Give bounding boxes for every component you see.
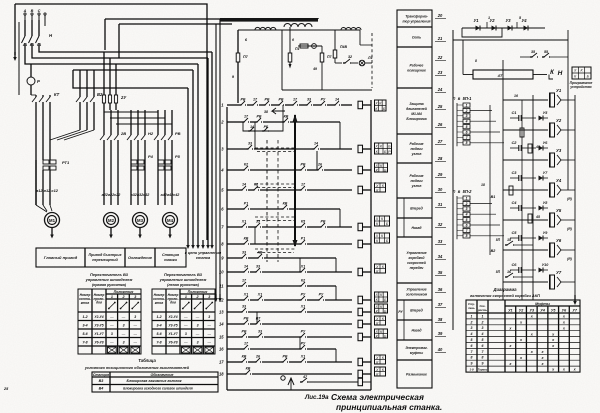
svg-text:Х: Х <box>375 368 379 372</box>
svg-text:управления шпинделем: управления шпинделем <box>159 277 207 282</box>
svg-text:—: — <box>109 324 114 328</box>
svg-text:16: 16 <box>514 94 518 98</box>
svg-text:К2: К2 <box>301 279 305 283</box>
svg-text:45: 45 <box>535 145 540 149</box>
svg-text:37: 37 <box>438 302 443 307</box>
svg-text:33: 33 <box>256 220 260 224</box>
svg-text:Х: Х <box>374 293 378 297</box>
svg-text:5: 5 <box>466 218 468 222</box>
svg-text:рость: рость <box>477 308 487 312</box>
svg-text:У7: У7 <box>556 270 562 275</box>
svg-text:М3: М3 <box>137 218 144 223</box>
svg-text:38: 38 <box>264 110 268 114</box>
svg-text:Х: Х <box>573 69 577 73</box>
svg-text:РУ: РУ <box>301 342 306 346</box>
svg-text:РВ: РВ <box>283 355 288 359</box>
svg-text:С1: С1 <box>37 43 42 47</box>
svg-text:РВ: РВ <box>175 131 181 136</box>
svg-text:В2: В2 <box>97 92 103 97</box>
svg-text:33: 33 <box>248 142 252 146</box>
svg-text:У2: У2 <box>489 18 495 23</box>
svg-text:С4: С4 <box>512 200 518 205</box>
svg-text:У6: У6 <box>556 238 562 243</box>
svg-text:Таблица: Таблица <box>138 358 156 363</box>
svg-text:12: 12 <box>219 298 224 303</box>
svg-text:двигателей: двигателей <box>406 107 428 111</box>
svg-text:У4: У4 <box>540 309 545 313</box>
svg-text:а42в42с42: а42в42с42 <box>161 193 181 197</box>
svg-text:ктов: ктов <box>81 301 90 305</box>
svg-text:Х: Х <box>374 330 378 334</box>
svg-text:Х1: Х1 <box>241 220 246 224</box>
svg-text:17: 17 <box>219 360 224 365</box>
svg-text:28: 28 <box>437 156 443 161</box>
svg-text:РТ1: РТ1 <box>62 160 70 165</box>
svg-text:—: — <box>133 341 138 345</box>
svg-text:РВ: РВ <box>244 317 249 321</box>
svg-text:7: 7 <box>466 229 468 233</box>
svg-text:8: 8 <box>471 356 473 360</box>
svg-text:14: 14 <box>250 125 254 129</box>
svg-text:Х: Х <box>375 217 379 221</box>
svg-text:А: А <box>23 9 27 13</box>
svg-text:6: 6 <box>471 344 473 348</box>
svg-text:В1: В1 <box>30 43 35 47</box>
svg-text:Тормоз: Тормоз <box>478 368 488 372</box>
svg-text:РВ: РВ <box>321 220 326 224</box>
svg-text:Назад: Назад <box>411 226 421 230</box>
svg-text:49: 49 <box>312 67 317 71</box>
svg-text:3: 3 <box>208 315 210 319</box>
svg-text:У10: У10 <box>542 263 550 267</box>
svg-text:С3: С3 <box>512 170 518 175</box>
svg-text:15: 15 <box>219 335 224 340</box>
svg-text:20: 20 <box>437 13 443 18</box>
svg-text:Х1: Х1 <box>243 293 248 297</box>
svg-text:Блокировка: Блокировка <box>406 117 426 121</box>
svg-text:Х: Х <box>375 317 379 321</box>
svg-text:25: 25 <box>3 387 9 391</box>
svg-text:3: 3 <box>466 207 468 211</box>
svg-text:—: — <box>195 332 200 336</box>
svg-text:Х: Х <box>374 144 378 148</box>
svg-text:5П-1: 5П-1 <box>463 96 473 101</box>
svg-text:В1: В1 <box>491 195 496 199</box>
svg-text:Охлаждение: Охлаждение <box>128 255 153 260</box>
svg-text:2В: 2В <box>120 131 126 136</box>
svg-text:управления шпинделем: управления шпинделем <box>85 277 133 282</box>
svg-text:коробкой: коробкой <box>409 256 426 260</box>
svg-text:32: 32 <box>438 222 443 227</box>
svg-text:Х1: Х1 <box>257 293 262 297</box>
svg-text:Размыкание: Размыкание <box>406 373 427 377</box>
svg-text:КВ: КВ <box>284 115 289 119</box>
svg-text:8: 8 <box>482 356 484 360</box>
svg-text:П1: П1 <box>295 47 300 51</box>
svg-text:Станция: Станция <box>93 373 109 377</box>
svg-text:1: 1 <box>466 196 468 200</box>
svg-text:31: 31 <box>438 202 443 207</box>
svg-text:Положения: Положения <box>114 290 134 294</box>
svg-text:—: — <box>195 315 200 319</box>
svg-text:узлов: узлов <box>411 184 422 188</box>
svg-text:Электромаг.: Электромаг. <box>405 346 427 350</box>
svg-text:4: 4 <box>470 332 473 336</box>
svg-text:РВ: РВ <box>257 115 262 119</box>
svg-text:33: 33 <box>242 251 246 255</box>
svg-text:7: 7 <box>466 136 468 140</box>
svg-text:Х1: Х1 <box>300 265 305 269</box>
svg-text:муфты: муфты <box>410 351 423 355</box>
svg-text:Трансформа-: Трансформа- <box>405 15 428 19</box>
svg-text:Х: Х <box>375 356 379 360</box>
svg-text:1: 1 <box>466 103 468 107</box>
svg-text:2: 2 <box>465 202 468 206</box>
svg-text:—: — <box>109 315 114 319</box>
svg-text:Р1: Р1 <box>301 237 305 241</box>
svg-text:Муфты: Муфты <box>535 302 551 306</box>
svg-text:С: С <box>38 9 41 13</box>
svg-text:35: 35 <box>438 270 443 275</box>
svg-text:станка: станка <box>196 255 211 260</box>
svg-text:С1: С1 <box>512 110 517 115</box>
svg-text:6: 6 <box>292 38 294 42</box>
svg-text:(правая рукоятка): (правая рукоятка) <box>92 283 127 287</box>
svg-text:У3-У5: У3-У5 <box>168 324 177 328</box>
svg-text:38: 38 <box>438 317 443 322</box>
svg-text:5: 5 <box>466 125 468 129</box>
svg-text:45: 45 <box>535 215 540 219</box>
svg-text:14: 14 <box>314 142 318 146</box>
svg-text:К2: К2 <box>244 163 248 167</box>
svg-text:РВ: РВ <box>301 163 306 167</box>
svg-text:Н2: Н2 <box>148 131 154 136</box>
svg-text:3: 3 <box>123 341 125 345</box>
svg-text:3: 3 <box>123 324 125 328</box>
svg-text:1: 1 <box>488 16 490 20</box>
svg-text:Управление: Управление <box>406 288 426 292</box>
svg-text:27: 27 <box>437 139 443 144</box>
svg-text:4: 4 <box>481 332 484 336</box>
svg-text:У6-У8: У6-У8 <box>94 341 103 345</box>
svg-text:М1-М4: М1-М4 <box>411 112 422 116</box>
svg-text:3: 3 <box>466 114 468 118</box>
svg-text:23: 23 <box>437 70 443 75</box>
svg-text:М4: М4 <box>167 218 174 223</box>
svg-text:4: 4 <box>465 120 468 124</box>
svg-text:5-6: 5-6 <box>82 332 87 336</box>
svg-text:Вперед: Вперед <box>410 207 423 211</box>
svg-text:Главный привод: Главный привод <box>44 255 78 260</box>
svg-text:3: 3 <box>471 326 473 330</box>
svg-text:Защита: Защита <box>409 102 423 106</box>
svg-text:РУ: РУ <box>321 98 326 102</box>
svg-text:2: 2 <box>465 109 468 113</box>
svg-text:6: 6 <box>466 223 468 227</box>
svg-text:33: 33 <box>438 239 443 244</box>
svg-text:У3: У3 <box>505 18 511 23</box>
svg-text:3: 3 <box>111 332 113 336</box>
svg-text:5П-2: 5П-2 <box>463 189 473 194</box>
svg-text:2: 2 <box>481 320 484 324</box>
svg-text:—: — <box>207 341 212 345</box>
svg-text:Х: Х <box>375 184 379 188</box>
svg-text:Х1: Х1 <box>300 305 305 309</box>
svg-text:тор управления: тор управления <box>402 20 430 24</box>
svg-text:У1: У1 <box>508 309 513 313</box>
svg-text:Рабочие: Рабочие <box>409 142 423 146</box>
svg-text:В4: В4 <box>99 387 104 391</box>
svg-text:У1-У7: У1-У7 <box>168 332 177 336</box>
svg-text:РУ: РУ <box>301 330 306 334</box>
svg-text:Р5: Р5 <box>175 154 181 159</box>
svg-text:13: 13 <box>219 310 224 315</box>
svg-text:3: 3 <box>197 341 199 345</box>
svg-text:14: 14 <box>335 98 339 102</box>
svg-text:Р: Р <box>37 79 40 84</box>
svg-text:5: 5 <box>471 338 473 342</box>
svg-text:КТ: КТ <box>54 92 60 97</box>
svg-text:передач: передач <box>410 266 424 270</box>
svg-text:Р1: Р1 <box>244 202 248 206</box>
svg-text:—: — <box>183 324 188 328</box>
svg-text:—: — <box>183 315 188 319</box>
svg-text:39: 39 <box>438 331 443 336</box>
svg-text:9: 9 <box>471 362 473 366</box>
svg-text:—: — <box>207 332 212 336</box>
svg-text:4: 4 <box>465 213 468 217</box>
svg-text:5П: 5П <box>496 270 501 274</box>
svg-text:Рабочее: Рабочее <box>410 64 424 68</box>
svg-text:Положения: Положения <box>188 290 208 294</box>
svg-text:3: 3 <box>197 324 199 328</box>
svg-text:пень: пень <box>468 306 475 310</box>
svg-text:33: 33 <box>307 98 311 102</box>
svg-text:Блокировка исходного салазок ш: Блокировка исходного салазок шпинделя <box>123 387 193 391</box>
svg-text:РУ: РУ <box>398 310 403 314</box>
svg-text:дов: дов <box>96 301 102 305</box>
svg-text:У4: У4 <box>521 18 527 23</box>
svg-text:Сеть: Сеть <box>412 36 421 40</box>
svg-text:30: 30 <box>438 187 443 192</box>
svg-text:33: 33 <box>258 330 262 334</box>
svg-text:Х: Х <box>374 305 378 309</box>
svg-text:8: 8 <box>466 234 468 238</box>
svg-text:Обозначение: Обозначение <box>151 373 174 377</box>
svg-text:7-8: 7-8 <box>82 341 87 345</box>
svg-text:—: — <box>183 341 188 345</box>
svg-text:РВ: РВ <box>241 98 246 102</box>
svg-text:У2: У2 <box>556 118 562 123</box>
svg-text:5: 5 <box>482 338 484 342</box>
svg-text:16: 16 <box>219 347 224 352</box>
svg-text:Х: Х <box>374 164 378 168</box>
svg-text:У3: У3 <box>556 148 562 153</box>
svg-text:6: 6 <box>482 344 484 348</box>
svg-text:а12 в12 с12: а12 в12 с12 <box>36 188 59 193</box>
svg-text:34: 34 <box>438 254 443 259</box>
svg-text:—: — <box>121 332 126 336</box>
svg-text:а32в32с32: а32в32с32 <box>131 193 151 197</box>
svg-text:3: 3 <box>134 315 136 319</box>
svg-text:5П: 5П <box>496 238 501 242</box>
svg-text:Управление: Управление <box>406 251 426 255</box>
svg-text:У5: У5 <box>556 208 562 213</box>
svg-text:У2-У4: У2-У4 <box>168 315 177 319</box>
svg-text:10: 10 <box>219 270 224 275</box>
svg-text:подачи: подачи <box>410 179 423 183</box>
svg-text:—: — <box>133 324 138 328</box>
svg-text:Н: Н <box>558 70 563 77</box>
svg-text:Блокировка зажимных головок: Блокировка зажимных головок <box>126 379 181 383</box>
svg-text:Диаграмма: Диаграмма <box>492 287 517 292</box>
svg-text:21: 21 <box>437 36 443 41</box>
svg-text:перемещений: перемещений <box>92 258 118 262</box>
svg-text:К2: К2 <box>254 183 258 187</box>
svg-text:(левая рукоятка): (левая рукоятка) <box>167 283 200 287</box>
svg-text:Привод быстрых: Привод быстрых <box>88 253 122 257</box>
svg-text:смазки: смазки <box>164 258 178 262</box>
svg-text:У3-У5: У3-У5 <box>94 324 103 328</box>
svg-text:1-2: 1-2 <box>156 315 161 319</box>
svg-text:14: 14 <box>244 265 248 269</box>
svg-text:КВ: КВ <box>244 237 249 241</box>
svg-text:У1-У7: У1-У7 <box>94 332 103 336</box>
svg-text:—: — <box>133 332 138 336</box>
svg-text:8: 8 <box>466 141 468 145</box>
svg-text:14: 14 <box>242 183 246 187</box>
svg-text:Назад: Назад <box>411 329 421 333</box>
svg-text:2: 2 <box>470 320 473 324</box>
svg-text:КВ: КВ <box>246 367 251 371</box>
svg-text:У4: У4 <box>556 178 562 183</box>
svg-text:29: 29 <box>437 172 443 177</box>
svg-text:14: 14 <box>219 322 224 327</box>
svg-text:4Т: 4Т <box>497 73 503 78</box>
svg-text:подачи: подачи <box>410 147 423 151</box>
svg-text:М1: М1 <box>49 218 56 223</box>
svg-text:33: 33 <box>256 265 260 269</box>
svg-text:РУ: РУ <box>319 293 324 297</box>
svg-text:А1: А1 <box>22 43 28 47</box>
svg-text:узлов: узлов <box>411 152 422 156</box>
svg-text:22: 22 <box>437 55 443 60</box>
svg-text:26: 26 <box>437 122 443 127</box>
svg-text:РВ: РВ <box>242 330 247 334</box>
svg-text:КВ: КВ <box>242 355 247 359</box>
svg-text:1: 1 <box>471 314 473 318</box>
svg-text:принципиальная станка.: принципиальная станка. <box>336 402 442 412</box>
svg-text:Х: Х <box>375 265 379 269</box>
svg-text:3: 3 <box>185 332 187 336</box>
svg-text:У1: У1 <box>556 88 562 93</box>
svg-text:3: 3 <box>482 326 484 330</box>
svg-text:ктов: ктов <box>155 301 164 305</box>
svg-text:7-8: 7-8 <box>156 341 161 345</box>
svg-text:У2-У4: У2-У4 <box>94 315 103 319</box>
svg-text:РБ: РБ <box>264 125 269 129</box>
svg-text:40: 40 <box>437 347 443 352</box>
svg-text:25: 25 <box>437 104 443 109</box>
svg-text:РВ: РВ <box>279 98 284 102</box>
svg-text:Х: Х <box>374 101 378 105</box>
svg-text:В: В <box>31 9 34 13</box>
svg-text:Вперед: Вперед <box>410 309 423 313</box>
svg-text:36: 36 <box>438 287 443 292</box>
svg-text:золотником: золотником <box>406 293 428 297</box>
svg-text:11: 11 <box>219 284 224 289</box>
svg-text:С5: С5 <box>512 230 518 235</box>
svg-text:—: — <box>121 315 126 319</box>
svg-text:5-6: 5-6 <box>156 332 161 336</box>
svg-text:3-4: 3-4 <box>82 324 87 328</box>
svg-text:9: 9 <box>482 362 484 366</box>
svg-text:Станция: Станция <box>162 253 180 257</box>
svg-text:6: 6 <box>466 130 468 134</box>
svg-text:8: 8 <box>475 59 477 63</box>
svg-text:Лис.19а: Лис.19а <box>304 394 329 401</box>
svg-text:1-9: 1-9 <box>469 368 473 372</box>
svg-text:а22в22с22: а22в22с22 <box>102 193 122 197</box>
svg-text:18: 18 <box>481 183 485 187</box>
svg-text:33: 33 <box>242 305 246 309</box>
svg-text:С6: С6 <box>512 262 518 267</box>
svg-text:РУ: РУ <box>301 293 306 297</box>
svg-text:устройство: устройство <box>569 85 591 89</box>
svg-text:М2: М2 <box>108 218 115 223</box>
svg-text:РВ: РВ <box>265 98 270 102</box>
svg-text:1-2: 1-2 <box>82 315 87 319</box>
svg-text:1: 1 <box>482 314 484 318</box>
svg-text:С2: С2 <box>512 140 518 145</box>
svg-text:включения скоростей коробки А: включения скоростей коробки АКП <box>470 293 540 298</box>
svg-text:—: — <box>207 324 212 328</box>
svg-text:условного позиционного обознач: условного позиционного обозначения выклю… <box>84 366 190 370</box>
svg-text:Рабочие: Рабочие <box>409 174 423 178</box>
svg-text:Р4: Р4 <box>148 154 154 159</box>
svg-text:Схема электрическая: Схема электрическая <box>331 392 424 402</box>
svg-text:освещение: освещение <box>407 69 426 73</box>
svg-text:18: 18 <box>219 372 224 377</box>
svg-text:24: 24 <box>437 87 443 92</box>
svg-text:дов: дов <box>170 301 176 305</box>
svg-text:КВ: КВ <box>283 202 288 206</box>
svg-text:3-4: 3-4 <box>156 324 161 328</box>
svg-text:У1: У1 <box>473 18 479 23</box>
svg-text:У6-У8: У6-У8 <box>168 341 177 345</box>
svg-text:Х1: Х1 <box>300 355 305 359</box>
svg-text:П4В: П4В <box>340 45 347 49</box>
svg-text:—: — <box>109 341 114 345</box>
svg-text:Х: Х <box>375 234 379 238</box>
svg-text:скоростей: скоростей <box>407 261 427 265</box>
